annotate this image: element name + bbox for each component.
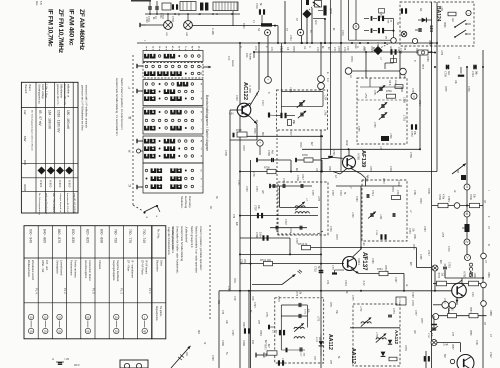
svg-text:C739: C739 xyxy=(329,226,331,232)
svg-text:Dial lamp: Dial lamp xyxy=(188,196,192,208)
svg-text:C719: C719 xyxy=(341,30,343,36)
svg-text:R713 1k: R713 1k xyxy=(298,243,308,246)
wire xyxy=(300,36,302,43)
switch contact row xyxy=(145,126,154,130)
testpoint xyxy=(431,340,437,346)
svg-text:Tr: Tr xyxy=(197,13,200,15)
wire xyxy=(320,130,322,368)
svg-text:C710: C710 xyxy=(261,100,263,106)
svg-text:R585: R585 xyxy=(489,310,492,316)
switch contact row xyxy=(145,54,154,58)
svg-text:–: – xyxy=(468,11,470,15)
resistor R573 xyxy=(267,351,277,355)
svg-text:C748: C748 xyxy=(411,292,413,298)
capacitor (electrolytic) xyxy=(278,360,280,365)
svg-text:R587: R587 xyxy=(451,344,453,350)
svg-text:measured with UHF: measured with UHF xyxy=(63,84,66,106)
svg-text:L750: L750 xyxy=(403,97,407,103)
wire xyxy=(333,157,343,160)
svg-text:R708: R708 xyxy=(264,167,270,170)
transformer: IF 1:3 xyxy=(318,76,325,83)
svg-text:V780: V780 xyxy=(463,271,467,278)
wire xyxy=(229,110,231,291)
svg-text:-9V: -9V xyxy=(362,242,364,246)
svg-text:Autom.: Autom. xyxy=(231,60,234,68)
svg-text:C796: C796 xyxy=(240,259,242,265)
svg-text:Ferrite antenna: Ferrite antenna xyxy=(74,260,78,278)
svg-text:C72: C72 xyxy=(221,310,223,315)
svg-text:100: 100 xyxy=(251,340,254,345)
svg-text:C71: C71 xyxy=(270,47,272,52)
capacitor C716 xyxy=(288,120,292,126)
svg-text:R799: R799 xyxy=(242,340,245,346)
svg-text:100k: 100k xyxy=(473,273,475,279)
svg-text:124: 124 xyxy=(429,25,434,33)
wire xyxy=(399,52,401,78)
box: AM oscillator (dashed) xyxy=(277,90,328,130)
wire: dashed link xyxy=(318,231,323,234)
svg-text:Seitenplatte: Seitenplatte xyxy=(55,260,59,274)
switch contact row xyxy=(145,96,154,100)
trimmer L773 xyxy=(376,338,386,340)
diode: AFC varicap xyxy=(302,9,311,18)
svg-text:C702: C702 xyxy=(145,17,147,23)
svg-text:S700: S700 xyxy=(242,23,244,29)
wire xyxy=(306,19,308,44)
capacitor C703 (electrolytic) xyxy=(172,4,174,9)
svg-text:Units: Units xyxy=(159,260,163,267)
svg-text:470k: 470k xyxy=(442,194,445,200)
svg-text:C715: C715 xyxy=(314,266,317,272)
svg-text:PL 5: PL 5 xyxy=(91,288,95,294)
svg-text:C777: C777 xyxy=(414,310,416,316)
testpoint xyxy=(265,77,272,84)
wire xyxy=(240,171,437,173)
testpoint xyxy=(454,203,460,209)
terminal xyxy=(140,24,146,26)
wire xyxy=(360,86,402,88)
switch: AFC box xyxy=(315,1,322,8)
crystal xyxy=(323,6,326,16)
wire xyxy=(270,185,312,187)
svg-text:R703: R703 xyxy=(292,46,294,52)
svg-text:C704: C704 xyxy=(255,3,258,9)
svg-text:R77: R77 xyxy=(313,356,316,361)
svg-text:180 - 180 mV: 180 - 180 mV xyxy=(66,110,70,130)
switch: AFC link (dashed) xyxy=(309,4,315,10)
wire xyxy=(279,186,281,207)
svg-text:AFC: AFC xyxy=(314,20,317,25)
svg-text:Ferritantenne: Ferritantenne xyxy=(70,260,74,276)
svg-text:C722: C722 xyxy=(489,352,491,358)
switch contact row xyxy=(145,110,154,114)
svg-text:C716: C716 xyxy=(316,47,318,53)
wire xyxy=(350,327,400,329)
capacitor C720 xyxy=(319,270,324,272)
svg-text:UKW: UKW xyxy=(23,184,27,191)
trimmer C751 xyxy=(379,87,381,91)
svg-text:R704: R704 xyxy=(350,56,352,62)
wire xyxy=(321,160,323,172)
switch contact row xyxy=(145,154,154,158)
wire xyxy=(431,2,433,368)
switch: gate b xyxy=(455,30,466,37)
wire xyxy=(145,13,240,15)
trimmer L770 xyxy=(294,327,304,329)
wire xyxy=(320,43,322,76)
svg-text:+: + xyxy=(259,141,261,145)
lamp La2 xyxy=(184,21,193,30)
trimmer C714 xyxy=(299,102,301,106)
svg-text:R708: R708 xyxy=(470,273,472,279)
resistor R701 xyxy=(162,3,171,10)
svg-text:4k0: 4k0 xyxy=(271,150,274,155)
svg-text:R706: R706 xyxy=(437,273,439,279)
switch: power switch xyxy=(261,23,272,26)
svg-text:Die Schwingspannung: Die Schwingspannung xyxy=(38,193,40,216)
svg-text:Gegengekoppelte: Gegengekoppelte xyxy=(112,260,116,281)
capacitor: tone xyxy=(56,361,64,363)
trimmer C715 xyxy=(300,113,302,117)
svg-text:Chassis: Chassis xyxy=(98,260,102,270)
capacitor (outside) xyxy=(268,113,270,118)
svg-text:shown in position „portable op: shown in position „portable operation“ xyxy=(199,226,203,271)
wire xyxy=(479,283,484,285)
resistor R712 xyxy=(264,261,273,265)
resistor R734a xyxy=(379,271,388,275)
svg-text:R766: R766 xyxy=(386,90,392,93)
resistor R583 xyxy=(469,314,478,318)
capacitor C709 xyxy=(446,65,448,70)
inductor L771 xyxy=(294,337,305,339)
svg-text:C735: C735 xyxy=(311,190,313,196)
svg-text:Lage der Schaltelemente: Lage der Schaltelemente xyxy=(167,227,170,255)
wire xyxy=(270,227,307,229)
svg-text:Connection board: Connection board xyxy=(88,260,92,281)
svg-text:C755: C755 xyxy=(357,126,359,132)
capacitor (electrolytic) xyxy=(279,330,281,335)
svg-text:M: M xyxy=(215,13,217,15)
svg-text:R701: R701 xyxy=(159,13,161,19)
svg-text:820 - 829: 820 - 829 xyxy=(85,229,89,243)
svg-text:C77: C77 xyxy=(451,332,453,337)
svg-text:R771: R771 xyxy=(329,302,331,308)
capacitor xyxy=(275,226,277,230)
svg-text:V901: V901 xyxy=(357,258,361,265)
svg-text:L770: L770 xyxy=(317,316,319,322)
switch group box xyxy=(143,51,203,62)
svg-text:C796: C796 xyxy=(227,286,229,292)
wire xyxy=(250,160,252,368)
box: IF filter 1 (dashed) xyxy=(278,182,328,235)
svg-text:Negative feedback: Negative feedback xyxy=(116,260,120,282)
inductor xyxy=(295,212,309,214)
svg-text:C736: C736 xyxy=(296,175,299,181)
wire xyxy=(321,158,327,160)
capacitor: bottom bar xyxy=(286,348,288,353)
capacitor C719 xyxy=(444,264,446,266)
svg-text:Band: Band xyxy=(28,85,32,92)
wire xyxy=(290,160,292,172)
transistor V780 OC45 xyxy=(452,283,467,298)
svg-text:MW: MW xyxy=(23,136,27,141)
diode AA112 xyxy=(319,341,324,346)
svg-text:C717: C717 xyxy=(427,250,430,256)
capacitor C770 xyxy=(298,303,300,307)
svg-text:C745: C745 xyxy=(419,254,421,260)
testpoint xyxy=(464,239,470,245)
svg-text:C742: C742 xyxy=(396,190,399,196)
switch group box xyxy=(143,80,203,106)
svg-text:R546: R546 xyxy=(415,48,418,54)
svg-text:800 - 808: 800 - 808 xyxy=(100,229,104,243)
wire xyxy=(311,8,313,43)
svg-text:R709: R709 xyxy=(438,194,441,200)
svg-text:R720: R720 xyxy=(419,198,421,204)
svg-text:ZF-NF Platte: ZF-NF Platte xyxy=(141,260,145,275)
svg-text:C797: C797 xyxy=(254,205,257,211)
testpoint xyxy=(391,38,397,44)
transistor V901 AF137 xyxy=(343,257,357,271)
svg-text:Anschlussplatte: Anschlussplatte xyxy=(84,260,88,279)
inductor L753 (core) xyxy=(381,136,389,141)
svg-text:Oscill. voltage: Oscill. voltage xyxy=(41,84,44,100)
svg-text:750 - 779: 750 - 779 xyxy=(128,229,132,243)
svg-text:Wellenschalter: Wellenschalter xyxy=(27,260,31,277)
svg-text:C718: C718 xyxy=(343,47,345,53)
wire xyxy=(254,51,431,53)
svg-text:L753: L753 xyxy=(389,133,392,139)
testpoint xyxy=(411,93,417,99)
svg-text:ATC: ATC xyxy=(254,46,257,51)
svg-text:gemessen mit UHF-Millivoltmete: gemessen mit UHF-Millivoltmeter am Mess xyxy=(81,85,84,131)
svg-text:C772: C772 xyxy=(295,291,297,297)
svg-text:R707: R707 xyxy=(242,145,245,151)
svg-text:C770: C770 xyxy=(277,296,280,302)
svg-text:C734: C734 xyxy=(282,178,284,184)
testpoint xyxy=(412,38,417,43)
svg-text:u: u xyxy=(413,94,415,98)
svg-text:Switch groups 9,6: Switch groups 9,6 xyxy=(190,226,194,248)
svg-text:Gezeichnete Schalterstellung :: Gezeichnete Schalterstellung : LV Automa… xyxy=(115,78,119,136)
svg-text:R582: R582 xyxy=(447,307,449,313)
wire xyxy=(256,124,258,140)
svg-text:C738: C738 xyxy=(295,238,297,244)
wire xyxy=(192,25,261,27)
svg-text:C748: C748 xyxy=(389,166,392,172)
svg-text:PL 1: PL 1 xyxy=(148,288,152,294)
svg-text:PL 2: PL 2 xyxy=(63,288,67,294)
svg-text:R776: R776 xyxy=(404,345,407,351)
wire: dashed link xyxy=(277,233,318,235)
svg-text:Dr: Dr xyxy=(203,342,206,345)
svg-text:Bausteine: Bausteine xyxy=(155,260,159,272)
svg-text:E: E xyxy=(326,72,330,74)
testpoint xyxy=(297,29,303,35)
wire xyxy=(336,185,402,187)
capacitor xyxy=(272,184,274,188)
node: switch common xyxy=(137,149,141,153)
testpoint xyxy=(466,10,471,15)
svg-text:C703: C703 xyxy=(171,16,174,22)
svg-text:C72: C72 xyxy=(346,46,349,51)
svg-text:L731: L731 xyxy=(379,214,382,220)
svg-text:0,4A: 0,4A xyxy=(443,344,448,347)
wire: verticals from top xyxy=(330,0,332,155)
switch contact row xyxy=(152,176,161,180)
diode BA124 (diamond) xyxy=(373,46,382,55)
svg-text:C719: C719 xyxy=(363,47,365,53)
resistor R548 xyxy=(448,12,456,16)
capacitor (electrolytic) xyxy=(380,234,382,239)
junctions xyxy=(277,42,279,44)
testpoint xyxy=(464,184,470,190)
svg-text:R716: R716 xyxy=(299,142,301,148)
testpoint xyxy=(265,30,271,36)
svg-text:R734: R734 xyxy=(384,265,386,271)
svg-text:C741: C741 xyxy=(413,190,415,196)
wire xyxy=(432,315,487,317)
svg-text:C776: C776 xyxy=(411,300,414,306)
svg-text:R711: R711 xyxy=(233,278,235,284)
pointer arrow to dial xyxy=(252,284,282,286)
svg-text:C715: C715 xyxy=(337,46,339,52)
svg-text:0,9V: 0,9V xyxy=(229,114,234,116)
resistor R706 xyxy=(470,203,480,207)
svg-text:L704: L704 xyxy=(440,6,443,12)
svg-text:R723: R723 xyxy=(242,322,244,328)
capacitor C797 (electrolytic) xyxy=(257,213,259,218)
testpoint xyxy=(481,282,487,288)
wire xyxy=(232,11,234,26)
svg-text:R77: R77 xyxy=(257,320,259,325)
svg-text:R733: R733 xyxy=(382,178,384,184)
wire xyxy=(431,267,434,269)
switch group box xyxy=(143,107,203,134)
wire xyxy=(348,0,350,40)
svg-text:C756: C756 xyxy=(373,122,375,128)
wire xyxy=(257,159,291,161)
wire xyxy=(417,267,432,269)
switch contact row xyxy=(145,139,154,143)
capacitor C773 xyxy=(299,347,301,351)
testpoint xyxy=(353,24,359,30)
resistor R708 xyxy=(267,169,276,173)
svg-text:100n: 100n xyxy=(289,228,291,234)
svg-text:R717: R717 xyxy=(301,174,304,180)
svg-text:C741: C741 xyxy=(371,190,374,196)
wire xyxy=(218,291,220,368)
svg-text:Dr2: Dr2 xyxy=(185,352,188,357)
wire xyxy=(466,190,468,255)
switch contact row xyxy=(145,119,148,122)
junctions on top bus xyxy=(149,13,151,15)
wire xyxy=(467,205,483,207)
svg-text:+: + xyxy=(267,78,269,82)
svg-text:sind vom Maschinens: sind vom Maschinens xyxy=(45,193,47,215)
svg-text:BA: BA xyxy=(419,8,422,12)
ferrite bead xyxy=(461,175,466,180)
svg-text:C760: C760 xyxy=(332,150,334,156)
svg-text:Nr./ No.: Nr./ No. xyxy=(156,229,160,239)
svg-text:UKW - Teil: UKW - Teil xyxy=(41,260,45,273)
svg-text:C723: C723 xyxy=(253,302,255,308)
svg-text:PL 4: PL 4 xyxy=(35,288,39,294)
svg-text:C712: C712 xyxy=(280,46,282,52)
wire xyxy=(461,278,463,283)
svg-text:36 D: 36 D xyxy=(74,363,80,367)
testpoint: G1 xyxy=(345,68,352,75)
svg-text:Switch for portable / car radi: Switch for portable / car radio operatio… xyxy=(195,226,199,273)
svg-text:C799: C799 xyxy=(221,340,224,346)
svg-text:measured with UHF-millivoltm.: measured with UHF-millivoltm. at transis xyxy=(85,85,88,129)
svg-text:-9V: -9V xyxy=(255,92,258,96)
capacitor (electrolytic) xyxy=(390,49,392,54)
capacitor C704 (electrolytic) xyxy=(259,9,261,14)
svg-text:leuchtung: leuchtung xyxy=(184,196,188,209)
svg-text:Umschalter für Koffer- oder Au: Umschalter für Koffer- oder Autobetrieb, xyxy=(176,226,180,274)
wire xyxy=(482,50,484,368)
scan artifact: top edge smudge xyxy=(131,0,151,2)
svg-text:L706: L706 xyxy=(289,87,292,93)
svg-text:M: M xyxy=(129,116,132,120)
svg-text:-0,3V: -0,3V xyxy=(362,280,364,286)
svg-text:L75: L75 xyxy=(379,146,382,151)
wire xyxy=(280,316,282,350)
switch: dial lamp switch xyxy=(133,205,143,211)
wire xyxy=(419,52,421,149)
svg-text:C733: C733 xyxy=(255,186,257,192)
svg-text:R573: R573 xyxy=(264,344,266,350)
svg-text:V790: V790 xyxy=(357,153,361,160)
svg-text:780 - 799: 780 - 799 xyxy=(114,229,118,243)
svg-text:C732: C732 xyxy=(245,186,247,192)
svg-text:C757: C757 xyxy=(410,131,413,137)
component: top black xyxy=(306,0,309,5)
svg-text:C736: C736 xyxy=(375,230,377,236)
svg-text:„Kofferbetrieb“: „Kofferbetrieb“ xyxy=(185,226,189,243)
svg-text:Bereich: Bereich xyxy=(24,85,28,94)
resistor R708b xyxy=(469,281,479,286)
svg-text:R548: R548 xyxy=(428,40,430,46)
svg-text:ZF AM 460kHz: ZF AM 460kHz xyxy=(78,9,85,51)
svg-text:V 900: V 900 xyxy=(49,180,53,188)
capacitor: left bar xyxy=(268,325,270,330)
svg-text:C74: C74 xyxy=(403,46,405,51)
wire xyxy=(277,26,279,43)
svg-text:Atm: Atm xyxy=(35,1,38,5)
component R708a xyxy=(237,132,247,137)
wire xyxy=(258,43,260,90)
connector block (partial) xyxy=(120,360,148,368)
wire xyxy=(456,298,458,305)
capacitor: padder (electrolytic) xyxy=(280,113,282,118)
svg-text:L733: L733 xyxy=(317,196,319,202)
svg-text:R736: R736 xyxy=(302,154,308,157)
wire xyxy=(240,237,290,239)
switch group box xyxy=(143,63,203,79)
svg-text:Skalenbe-: Skalenbe- xyxy=(180,196,184,209)
svg-text:C738: C738 xyxy=(331,190,333,196)
svg-text:C71: C71 xyxy=(326,280,329,285)
svg-text:BA: BA xyxy=(396,22,399,26)
coupling arrow xyxy=(452,164,466,175)
svg-text:C731: C731 xyxy=(237,180,239,186)
svg-text:C721: C721 xyxy=(344,280,347,286)
svg-text:C737: C737 xyxy=(284,219,287,225)
resistor R706 xyxy=(437,281,447,286)
svg-text:C771: C771 xyxy=(265,312,267,318)
